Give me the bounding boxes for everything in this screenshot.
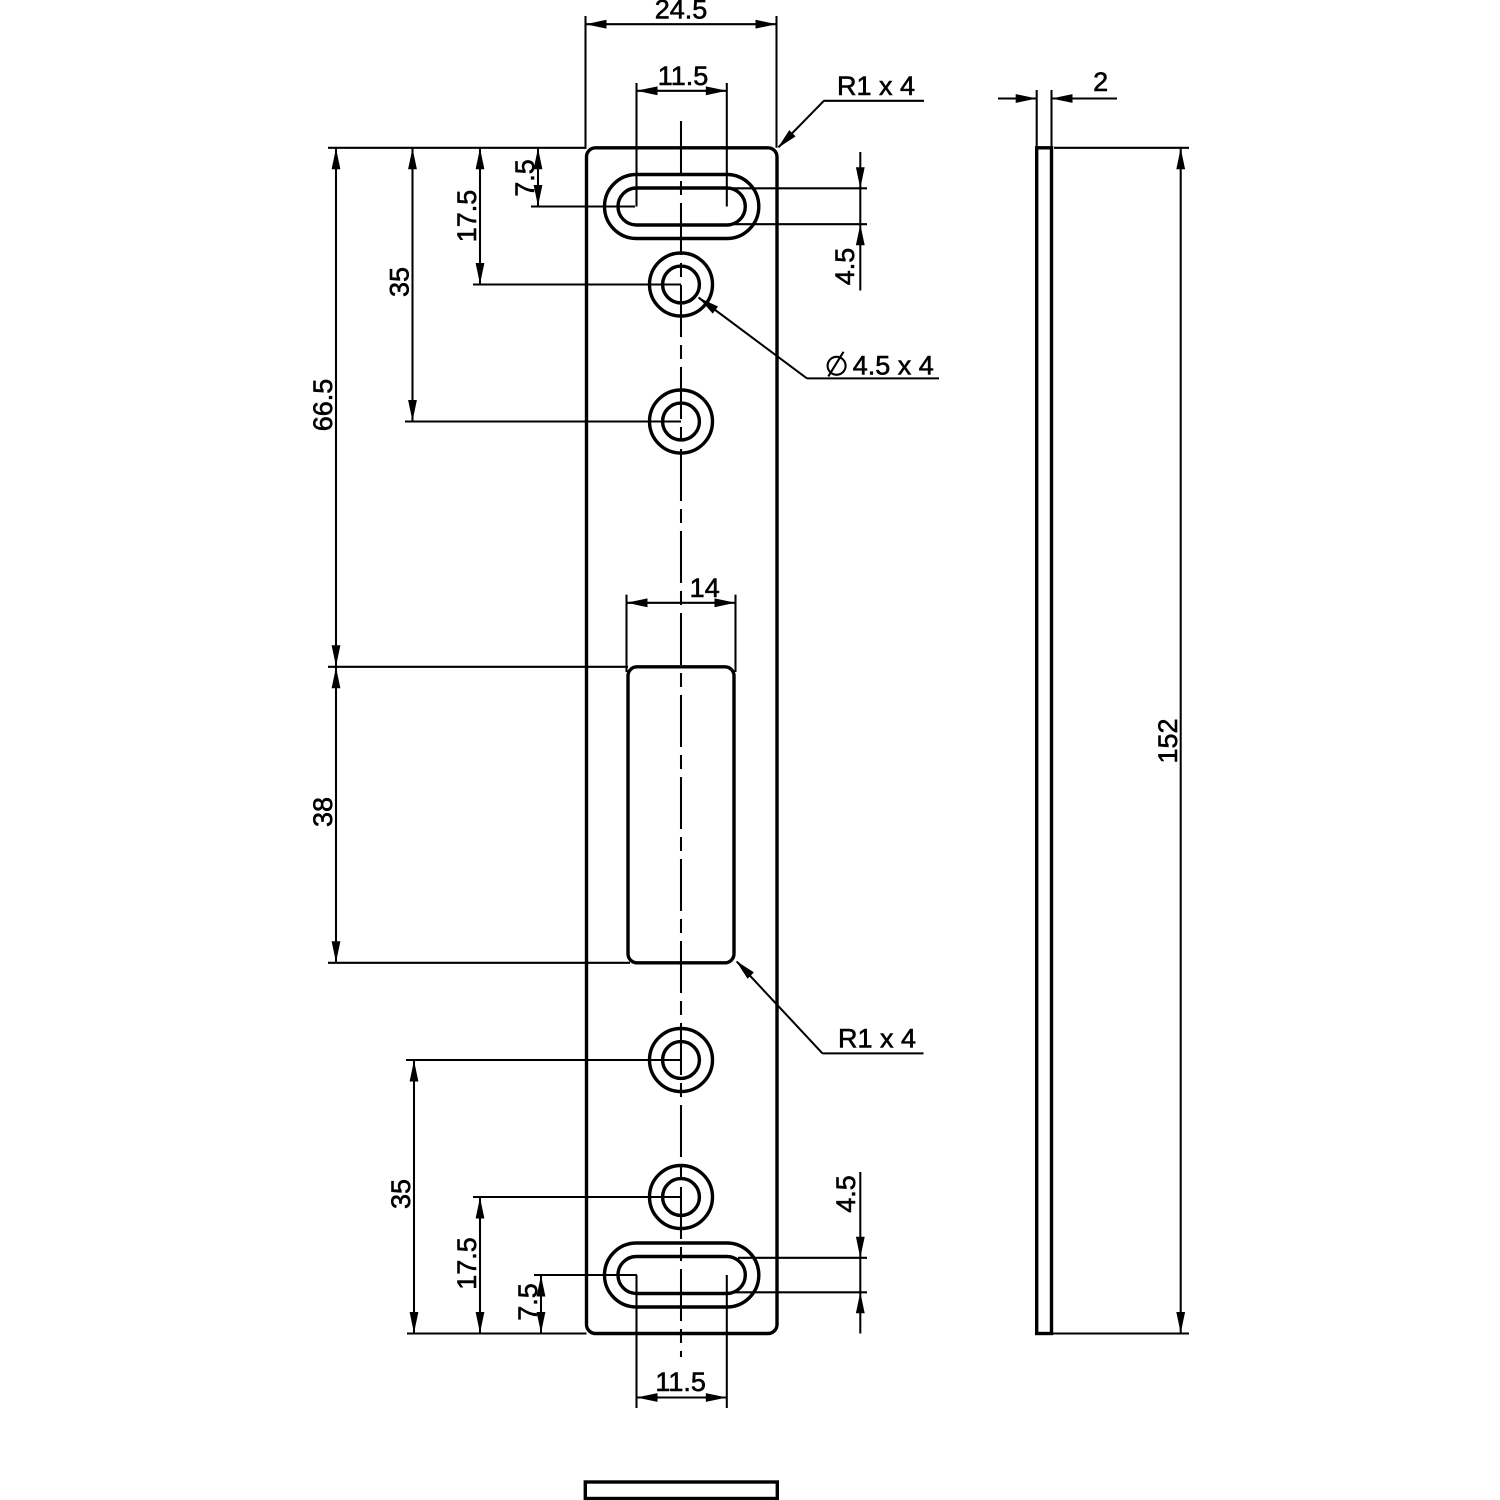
svg-text:R1 x 4: R1 x 4: [837, 71, 915, 101]
dim 24.5 extension line right: [775, 16, 777, 148]
svg-text:152: 152: [1153, 718, 1183, 763]
R1 x 4 bottom leader arrow: [736, 961, 754, 979]
dim 35 bottom line: [413, 1060, 415, 1334]
dim 2 extension left: [1036, 90, 1038, 148]
dim 38 arrow down: [332, 941, 341, 962]
svg-text:14: 14: [690, 573, 720, 603]
dim 4.5 bottom line upper: [859, 1172, 861, 1258]
dim 11.5 top arrow left: [637, 86, 658, 95]
svg-text:11.5: 11.5: [658, 61, 709, 91]
dim 11.5 top extension right: [726, 83, 728, 207]
dim 11.5 top extension left: [635, 83, 637, 207]
dim 66.5 arrow up: [332, 148, 341, 169]
dim 11.5 bottom extension left: [635, 1275, 637, 1408]
dim 152 extension top: [1054, 147, 1189, 149]
dim 7.5 bottom arrow down: [537, 1312, 546, 1333]
bottom view outline: [585, 1482, 777, 1499]
bottom edge extension line: [407, 1332, 587, 1334]
dim 4.5 top arrow up: [856, 224, 865, 245]
dim 17.5 top arrow up: [476, 148, 485, 169]
dim 4.5 top extension upper: [728, 187, 867, 189]
hole leader line: [699, 298, 808, 379]
dim 17.5 bottom arrow up: [476, 1198, 485, 1219]
dim 14 extension right: [734, 595, 736, 672]
dim 14 extension left: [625, 595, 627, 672]
dim 14 arrow right: [715, 598, 736, 607]
side view outline: [1037, 148, 1052, 1334]
hole 1: [663, 266, 700, 303]
top slot centre extension: [531, 205, 635, 207]
hole 3: [663, 1042, 700, 1079]
dim 24.5 arrow left: [586, 20, 607, 29]
hole leader arrow: [699, 298, 719, 314]
cutout bottom extension: [328, 962, 630, 964]
svg-text:17.5: 17.5: [452, 1237, 482, 1290]
bottom slot hole outline: [618, 1257, 745, 1294]
dim 2 line left: [998, 97, 1037, 99]
top slot countersink outline: [605, 175, 759, 239]
dim 7.5 top arrow down: [534, 185, 543, 206]
dim 11.5 bottom arrow left: [637, 1393, 658, 1402]
R1 x 4 bottom leader: [823, 1052, 924, 1054]
diameter symbol: [828, 357, 846, 375]
svg-text:4.5: 4.5: [830, 248, 860, 286]
dim 152 extension bottom: [1053, 1332, 1189, 1334]
dim 4.5 bottom extension lower: [735, 1291, 867, 1293]
dim 24.5 arrow right: [756, 20, 777, 29]
rectangular cutout: [628, 667, 734, 963]
dim 66.5 arrow down: [332, 645, 341, 666]
dim 35 bottom arrow up: [410, 1061, 419, 1082]
dim 152 arrow bottom: [1176, 1312, 1185, 1333]
dim 38 line: [335, 667, 337, 963]
dim 11.5 bottom line: [637, 1396, 727, 1398]
svg-text:66.5: 66.5: [308, 379, 338, 432]
svg-text:2: 2: [1093, 67, 1108, 97]
dim 7.5 bottom line: [540, 1275, 542, 1334]
svg-text:38: 38: [308, 797, 338, 827]
dim 7.5 top arrow up: [534, 148, 543, 169]
dim 4.5 top line upper: [859, 152, 861, 188]
dim 4.5 top extension lower: [731, 223, 867, 225]
dim 7.5 bottom arrow up: [537, 1276, 546, 1297]
cutout top extension: [328, 666, 628, 668]
dim 2 extension right: [1050, 90, 1052, 148]
dim 2 line right: [1052, 97, 1118, 99]
svg-text:R1 x 4: R1 x 4: [838, 1024, 916, 1054]
hole 4: [663, 1179, 700, 1216]
svg-text:7.5: 7.5: [510, 159, 540, 197]
dim 11.5 top line: [637, 90, 727, 92]
dim 14 arrow left: [627, 598, 648, 607]
dim 4.5 bottom arrow down: [856, 1237, 865, 1258]
svg-text:7.5: 7.5: [513, 1283, 543, 1321]
top edge extension line: [328, 147, 587, 149]
dim 152 arrow top: [1176, 148, 1185, 169]
dim 17.5 bottom arrow down: [476, 1312, 485, 1333]
dim 4.5 top arrow down: [856, 167, 865, 188]
dim 24.5 extension line left: [584, 16, 586, 148]
dim 24.5 line: [586, 23, 777, 25]
bottom slot centre extension: [534, 1274, 637, 1276]
svg-text:11.5: 11.5: [655, 1367, 706, 1397]
hole 3 centre extension: [406, 1059, 681, 1061]
hole 2 countersink: [650, 390, 713, 453]
svg-text:35: 35: [384, 267, 414, 297]
dim 4.5 bottom arrow up: [856, 1292, 865, 1313]
dim 7.5 top line: [537, 148, 539, 207]
dim 4.5 top line lower: [859, 224, 861, 290]
dim 11.5 bottom arrow right: [706, 1393, 727, 1402]
dim 35 top arrow down: [408, 400, 417, 421]
svg-text:24.5: 24.5: [655, 0, 708, 25]
svg-text:17.5: 17.5: [452, 190, 482, 243]
dim 11.5 bottom extension right: [726, 1275, 728, 1408]
hole 4 countersink: [650, 1166, 713, 1229]
vertical centerline: [680, 121, 682, 1357]
hole 3 countersink: [650, 1029, 713, 1092]
dim 66.5 line: [335, 148, 337, 667]
bottom slot countersink outline: [605, 1243, 759, 1307]
hole 4 centre extension: [473, 1196, 681, 1198]
dim 17.5 top arrow down: [476, 263, 485, 284]
dim 38 arrow up: [332, 667, 341, 688]
svg-text:35: 35: [386, 1179, 416, 1209]
hole 1 countersink: [650, 253, 713, 316]
dim 17.5 top line: [479, 148, 481, 285]
dim 4.5 bottom line lower: [859, 1292, 861, 1333]
hole 2: [663, 403, 700, 440]
hole 2 centre extension: [405, 420, 681, 422]
dim 4.5 bottom extension upper: [738, 1257, 867, 1259]
dim 35 top arrow up: [408, 148, 417, 169]
R1 x 4 top leader: [824, 100, 925, 102]
dim 2 arrow right: [1052, 94, 1073, 103]
dim 17.5 bottom line: [479, 1197, 481, 1334]
dim 35 top line: [411, 148, 413, 422]
dim 14 line: [627, 602, 736, 604]
svg-text:4.5 x 4: 4.5 x 4: [853, 351, 934, 381]
dim 11.5 top arrow right: [706, 86, 727, 95]
hole 1 centre extension: [473, 283, 681, 285]
R1 x 4 top leader arrow: [778, 130, 796, 148]
top slot hole outline: [618, 188, 745, 225]
svg-text:4.5: 4.5: [831, 1175, 861, 1213]
plate front view outline: [587, 148, 778, 1334]
dim 152 line: [1180, 148, 1182, 1334]
dim 35 bottom arrow down: [410, 1312, 419, 1333]
dim 2 arrow left: [1016, 94, 1037, 103]
